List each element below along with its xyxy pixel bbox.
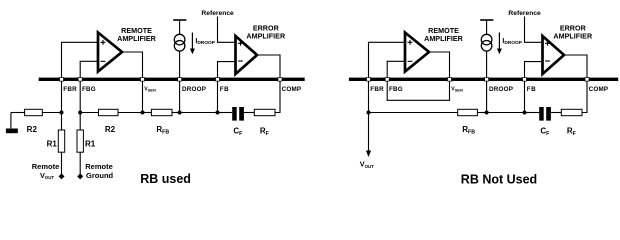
wire R2b to VSEN node [118,112,143,114]
svg-text:RB Not Used: RB Not Used [461,173,537,187]
svg-text:RF: RF [567,126,576,137]
resistor RFB A [151,109,172,115]
UA1 - pin mark [101,60,106,62]
svg-text:CF: CF [540,126,549,137]
svg-text:VOUT: VOUT [360,160,374,169]
UB2 + pin mark [545,41,550,46]
wire RF to COMP [582,81,587,113]
IC pin bar B [349,78,618,81]
pin DROOP A terminal [178,78,182,82]
svg-text:Remote: Remote [32,162,60,171]
svg-text:COMP: COMP [589,86,609,93]
wire UB1 -input from FBG [387,61,405,77]
svg-text:AMPLIFIER: AMPLIFIER [553,31,593,40]
wire DROOP to FB node [487,112,525,114]
svg-text:R2: R2 [27,125,38,134]
svg-text:FBR: FBR [370,86,384,93]
svg-text:RFB: RFB [462,125,475,136]
pin FBG A terminal [78,78,82,82]
wire FBG pin down [79,81,81,130]
wire FB pin down [217,81,219,113]
op-amp UA2 error amplifier [236,36,258,74]
UB2 - pin mark [545,60,550,62]
node VOUT [366,151,371,158]
wire Reference to UB2 +input [525,17,543,43]
svg-text:AMPLIFIER: AMPLIFIER [117,34,157,43]
current source IB1 IDROOP [481,34,492,45]
node DROOP junction A [178,111,182,115]
wire FBG short to VSEN [387,81,449,100]
wire T-bar to IB1 [486,20,488,34]
svg-text:R1: R1 [85,139,96,148]
svg-text:DROOP: DROOP [489,86,513,93]
node Remote VOUT [59,173,65,179]
svg-text:FB: FB [220,86,230,93]
svg-text:DROOP: DROOP [182,86,206,93]
capacitor CF A [232,107,237,121]
supply T-bar above IB1 [480,19,493,21]
svg-text:Ground: Ground [86,171,113,180]
wire FBG to R2b [80,112,98,114]
wire FB to UA2 -input [218,62,236,78]
wire UB2 output to COMP [564,55,587,78]
wire UA1 output to VSEN [122,52,143,78]
resistor R1 (FBG leg) [77,130,83,152]
wire FB to UB2 -input [525,62,543,78]
wire FBR to RFB [369,112,458,114]
svg-text:FBG: FBG [82,86,96,93]
supply T-bar above IA1 [173,19,186,21]
svg-text:AMPLIFIER: AMPLIFIER [424,34,464,43]
wire FBR pin down to VOUT [368,81,370,151]
svg-text:RFB: RFB [156,125,169,136]
arrow IDROOP direction [191,33,193,50]
wire ground to R2a [11,112,25,114]
wire UA1 -input from FBG [80,61,98,77]
wire Reference to UA2 +input [218,17,236,43]
UB1 + pin mark [408,40,413,45]
svg-text:IDROOP: IDROOP [195,38,215,46]
svg-text:R1: R1 [47,139,58,148]
wire UA1 +input from FBR [62,42,99,77]
wire DROOP pin down [486,81,488,113]
arrow IDROOP direction [498,33,500,50]
wire FBR pin down [61,81,63,130]
svg-text:RF: RF [260,126,269,137]
node VSEN junction [141,111,145,115]
resistor RFB B [458,109,478,115]
pin FBR A terminal [60,78,64,82]
svg-text:FB: FB [527,86,537,93]
pin FB A terminal [216,78,220,82]
svg-text:RB used: RB used [140,172,191,186]
wire UA2 output to COMP [257,55,280,78]
wire RFB to DROOP node [172,112,180,114]
pin DROOP B terminal [485,78,489,82]
svg-text:AMPLIFIER: AMPLIFIER [246,31,286,40]
node FBR junction [367,111,371,115]
pin COMP A terminal [278,78,282,82]
wire VSEN pin down [142,81,144,113]
resistor RF B [561,109,582,115]
wire R1 to Remote VOUT [61,152,63,174]
node FB junction A [216,111,220,115]
ground [10,113,12,129]
op-amp UA1 remote amplifier [98,33,122,72]
wire IB1 to DROOP pin [486,51,488,78]
svg-text:Reference: Reference [201,10,234,17]
current source IA1 IDROOP [174,34,185,45]
wire IA1 to DROOP pin [179,51,181,78]
wire RFB to DROOP node [477,112,486,114]
pin FBG B terminal [385,78,389,82]
wire R1 to Remote Ground [79,152,81,174]
pin FBR B terminal [367,78,371,82]
wire DROOP to FB node [180,112,218,114]
pin FB B terminal [523,78,527,82]
svg-text:Reference: Reference [508,10,541,17]
capacitor CF B [539,107,544,121]
resistor R1 (FBR leg) [58,130,64,152]
node FB junction B [523,111,527,115]
node FBR junction [60,111,64,115]
wire CF to RF [551,112,561,114]
UB1 - pin mark [408,60,413,62]
svg-text:IDROOP: IDROOP [502,38,522,46]
wire UB1 output to VSEN [429,52,450,78]
IC pin bar A [39,78,305,81]
svg-text:Remote: Remote [85,162,113,171]
svg-text:COMP: COMP [282,86,302,93]
node Remote Ground [77,173,83,179]
wire FB pin down [524,81,526,113]
UA1 + pin mark [101,40,106,45]
pin VSEN B terminal [448,78,452,82]
wire FB to CF [218,112,233,114]
resistor R2 (FBG to VSEN) [99,109,119,115]
node FBG junction [78,111,82,115]
node DROOP junction B [485,111,489,115]
svg-text:FBG: FBG [389,86,403,93]
svg-text:CF: CF [233,126,242,137]
pin VSEN A terminal [141,78,145,82]
UA2 - pin mark [238,60,243,62]
wire FB to CF [525,112,540,114]
svg-text:FBR: FBR [63,86,77,93]
svg-text:VSEN: VSEN [144,87,156,93]
resistor R2 (FBR to ground) [25,109,43,115]
op-amp UB1 remote amplifier [405,33,429,72]
svg-text:VOUT: VOUT [40,171,54,180]
wire CF to RF [244,112,254,114]
svg-text:R2: R2 [105,125,116,134]
pin COMP B terminal [585,78,589,82]
UA2 + pin mark [238,41,243,46]
wire R2a to FBR node [42,112,61,114]
op-amp UB2 error amplifier [543,36,565,74]
wire VSEN to RFB [143,112,152,114]
wire RF to COMP [275,81,280,113]
resistor RF A [254,109,275,115]
svg-text:VSEN: VSEN [451,87,463,93]
wire T-bar to IA1 [179,20,181,34]
wire DROOP pin down [179,81,181,113]
wire UB1 +input from FBR [369,42,406,77]
